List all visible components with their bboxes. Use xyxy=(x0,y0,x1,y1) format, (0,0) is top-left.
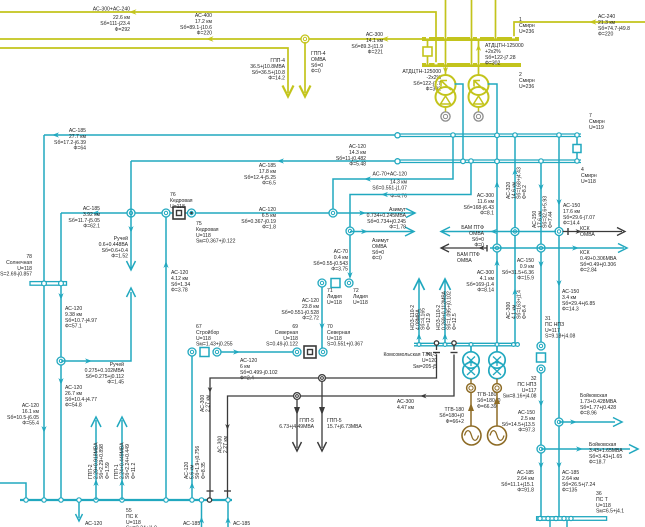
junction circles x=497 on buses xyxy=(495,133,500,138)
Kedrovaya black box xyxy=(173,207,185,219)
wire NPZ down xyxy=(540,373,542,517)
node 67 box xyxy=(200,348,209,357)
bus B 110kV y=161 xyxy=(131,160,398,162)
wire x=541 bus B down south xyxy=(540,164,542,343)
svg-text:АС-185: АС-185 xyxy=(183,521,200,527)
south bus 110kV y=500 xyxy=(20,499,232,501)
arrow on L2 west 1 xyxy=(206,36,214,42)
tick x210 xyxy=(207,490,214,492)
node 31 PS NPZ xyxy=(537,342,545,350)
wire down x201 with up arrow xyxy=(201,502,203,527)
bus 1 Smirn 220kV xyxy=(422,37,519,41)
node 67 donut left xyxy=(188,348,196,356)
arrow down into T1 xyxy=(443,67,448,74)
bus A thick part xyxy=(398,133,582,135)
wire vertical 496 xyxy=(495,0,497,39)
wire corner x=61 down xyxy=(60,213,62,500)
arrow down x131 xyxy=(128,226,133,233)
arrows down to PS T xyxy=(538,462,543,469)
arrow west on 194 xyxy=(381,192,388,197)
row2 BAM PTF / KSK y=248 xyxy=(441,247,487,249)
arrow east on it xyxy=(233,349,240,354)
rotated label GPP-1 xyxy=(114,442,137,479)
junction Ruchey donut xyxy=(57,357,65,365)
junction GPP-5 b donut xyxy=(319,375,326,382)
arrow AC-240 west xyxy=(589,19,597,25)
GPP-5 feeder b xyxy=(321,381,323,448)
junction circle bus B x=397 xyxy=(395,159,400,164)
arrow up x166 xyxy=(163,261,168,268)
stub Boykovskaya 2 xyxy=(541,448,630,450)
wire x=166 Kedrovaya down to south bus xyxy=(165,217,167,501)
wire T1 secondary to bus B xyxy=(455,84,464,164)
rotated label NOZ b xyxy=(436,290,458,330)
TEC transformer T3 xyxy=(463,346,479,379)
GPP-5 feeder a xyxy=(296,399,298,448)
transformer T1 ATDCTN xyxy=(436,75,456,107)
wire corner down from bus A to main line (x=44) xyxy=(43,135,45,500)
black rings on TEC bus xyxy=(434,341,438,345)
generator G2 xyxy=(488,426,507,445)
wire down x228 with up arrow xyxy=(227,502,229,527)
stub arrows above TEC bus xyxy=(418,280,420,343)
69-70 black box xyxy=(304,346,316,358)
svg-text:АС-3002.27 км: АС-3002.27 км xyxy=(218,435,230,453)
svg-text:АС-185: АС-185 xyxy=(233,521,250,527)
Komsomolskaya TEC-3 black line B xyxy=(453,345,455,350)
wire bus-tie with regulator box xyxy=(427,39,429,65)
T1 neutral xyxy=(445,107,447,112)
arrow bus B west xyxy=(277,158,284,163)
junction donut x=131 y=213 xyxy=(127,209,135,217)
wire corner bottom-left xyxy=(0,483,26,500)
wire yellow line L3 y=48 xyxy=(0,48,288,93)
arrow load GPP-4 left xyxy=(283,86,294,97)
junction GPP-5 a donut xyxy=(294,393,301,400)
arrow up on 479 xyxy=(476,44,481,51)
wire vertical 472 xyxy=(471,0,473,65)
arrow west on it xyxy=(364,176,371,181)
arrow down AC-120 23.8 xyxy=(319,323,324,330)
rotated label AC-320 xyxy=(506,167,528,199)
node 71 Lidiya xyxy=(318,279,326,287)
T4 link brown xyxy=(496,379,498,384)
TEC transformer T4 xyxy=(489,346,505,379)
svg-text:АС-120: АС-120 xyxy=(85,521,102,527)
junction azimut donut xyxy=(346,227,354,235)
junction Boykovskaya 2 xyxy=(537,445,545,453)
junction tap on L2 xyxy=(301,35,309,43)
node 72 Lidiya xyxy=(345,279,353,287)
regulator box xyxy=(423,47,432,56)
stub load Azimut zero xyxy=(350,231,413,233)
svg-text:АС-3002.27 км: АС-3002.27 км xyxy=(200,394,212,412)
wire 67 to 69 xyxy=(221,351,293,353)
arrow west AC-300 4.47 xyxy=(420,394,427,399)
arrow down x559 xyxy=(556,199,561,206)
black ring on south bus xyxy=(207,498,211,502)
node 75 Kedrovaya donut right xyxy=(188,209,196,217)
TEC bus y=344 xyxy=(414,342,519,344)
wire down x79 arrow xyxy=(78,502,80,518)
bus B thick part xyxy=(398,159,582,161)
Lidiya box xyxy=(331,279,340,288)
wire corner feeder to Lidiya chain xyxy=(350,161,471,277)
junction row1 x559 xyxy=(555,228,563,236)
junction row2 x541 xyxy=(537,244,545,252)
wire x=559 bus A down south xyxy=(558,138,560,517)
arrow load GPP-4 right xyxy=(300,86,311,97)
wire AC-240 from right xyxy=(514,22,645,39)
rotated label AC-150 17.6a xyxy=(532,196,554,228)
TEC bus circles xyxy=(417,343,421,347)
wire GPP-4 feeder 2 xyxy=(304,42,306,93)
arrow down x541b xyxy=(538,261,543,268)
svg-text:АС-300+АС-240: АС-300+АС-240 xyxy=(93,7,130,13)
rotated label AC-300 2.27 b xyxy=(218,435,230,453)
arrow down into Lidiya xyxy=(347,272,352,279)
wire main west line y=213 xyxy=(61,212,415,214)
arrow on L1 west xyxy=(129,9,137,15)
wire GPP-1 feeder up arrow xyxy=(121,420,123,500)
T2 neutral xyxy=(478,107,480,112)
wire x=131 from y=162 to arrow xyxy=(130,161,132,269)
svg-text:АС-70+АС-120: АС-70+АС-120 xyxy=(373,172,408,178)
Komsomolskaya TEC-3 black line A xyxy=(436,345,438,350)
arrow up Ruchey xyxy=(127,288,136,297)
generator G1 xyxy=(462,426,481,445)
wire vertical 446 to transformer T1 xyxy=(445,0,447,75)
bus A 110kV y=135 xyxy=(44,134,398,136)
junction x=333 donut xyxy=(329,209,337,217)
svg-text:АС-3004.47 км: АС-3004.47 км xyxy=(397,399,415,411)
node 76 Kedrovaya donut left xyxy=(162,209,170,217)
bus tie box 4 Smirn xyxy=(576,136,578,145)
junction Boykovskaya 1 xyxy=(555,418,563,426)
arrow east Ruchey xyxy=(85,358,92,363)
bus 2 Smirn 220kV xyxy=(422,63,521,67)
wire vertical 479 with up arrow to T2 xyxy=(478,39,480,75)
wire Ruchey loop xyxy=(61,292,131,361)
transformer T2 ATDCTN xyxy=(469,75,489,107)
wire x=515 bus A down to TEC bus xyxy=(514,138,516,344)
node 70 donut xyxy=(319,348,327,356)
T3 generator lead xyxy=(470,393,472,427)
wire Lidiya down to node 70 xyxy=(321,287,323,349)
wire T2 secondary to bus A xyxy=(488,84,498,343)
wire yellow line L2 AC-400 y=39 xyxy=(0,38,422,40)
svg-text:50: 50 xyxy=(426,351,432,356)
rotated label NOZ a xyxy=(410,305,432,330)
row1 BAM PTF / KSK y=231.5 xyxy=(441,231,556,233)
svg-text:АС-1204.12 кмSб=1.34Ф=3.78: АС-1204.12 кмSб=1.34Ф=3.78 xyxy=(171,270,190,294)
rotated label GPP-2 xyxy=(88,442,111,479)
arrow down x44 xyxy=(41,426,46,433)
arrow down x61 upper xyxy=(58,293,63,300)
arrows up x515 xyxy=(512,168,517,175)
tick x226 xyxy=(224,490,231,492)
wire node67 down to south bus xyxy=(191,356,193,500)
junction row2 x497 xyxy=(493,244,501,252)
rotated label AC-300 4.1b xyxy=(506,290,528,319)
rotated label AC-300 2.27 a xyxy=(200,394,212,412)
wire GPP-2 feeder up arrow xyxy=(95,420,97,500)
arrow up x192 xyxy=(189,482,194,489)
bus PS T xyxy=(537,517,607,521)
wire yellow line L1 AC-300+AC-240 y=12 xyxy=(0,12,436,65)
arrow down x559b xyxy=(556,280,561,287)
arrow bus A west xyxy=(52,132,59,137)
arrow down NPZ xyxy=(538,400,543,407)
KSK zero stub black xyxy=(563,231,622,233)
T3 link brown xyxy=(470,379,472,384)
wire AC-70+AC-120 corner feeder xyxy=(333,135,453,211)
rotated label AC-120 5.6 xyxy=(184,446,207,479)
junction circle bus A x=397 xyxy=(395,133,400,138)
arrow down x541 xyxy=(538,184,543,191)
node 69 donut xyxy=(293,348,301,356)
junction row1 x515 xyxy=(511,228,519,236)
stub Boykovskaya 1 xyxy=(559,421,615,423)
arrow down x61 lower xyxy=(58,378,63,385)
arrow east y=213 Azimut xyxy=(406,209,415,218)
arrow down x210 xyxy=(208,387,213,393)
T4 generator lead xyxy=(496,393,498,427)
arrow west y=213 xyxy=(92,210,99,215)
arrow down x226 xyxy=(225,424,230,430)
wires below PS T bus xyxy=(549,520,551,527)
node 67 donut right xyxy=(213,348,221,356)
arrows up x497 xyxy=(494,181,499,188)
node 78 Solnechnaya bar xyxy=(30,282,67,286)
arrow on L2 west 2 xyxy=(381,36,389,42)
